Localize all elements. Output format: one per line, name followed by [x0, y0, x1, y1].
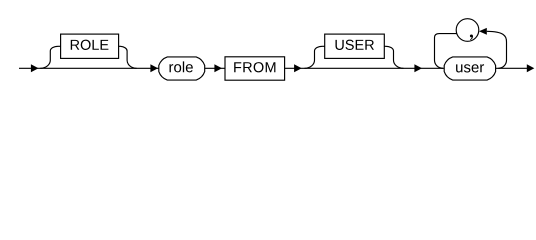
- arrow A4: [294, 64, 302, 72]
- arrow A1: [31, 64, 39, 72]
- arrow loop (points left): [479, 28, 487, 35]
- wire ROLE bypass left: [40, 46, 60, 68]
- wire USER bypass right: [384, 46, 403, 68]
- label FROM: [234, 62, 275, 72]
- arrow A6: [527, 64, 535, 72]
- oval user: [444, 57, 495, 80]
- arrow A2: [150, 64, 158, 72]
- arrow A5: [414, 64, 422, 72]
- circle comma: [456, 19, 479, 42]
- keyword box USER: [325, 34, 385, 58]
- wire repeat loop left leg: [435, 34, 458, 69]
- keyword box FROM: [225, 57, 285, 80]
- label comma: [470, 34, 473, 40]
- wire main line: [19, 67, 533, 69]
- wire repeat loop right leg: [487, 31, 507, 68]
- wire USER bypass left: [305, 46, 325, 68]
- keyword box ROLE: [61, 34, 119, 58]
- label role: [169, 61, 192, 72]
- label USER: [335, 40, 373, 50]
- label user: [456, 64, 484, 72]
- wire ROLE bypass right: [119, 46, 137, 68]
- oval role: [159, 57, 205, 80]
- label ROLE: [71, 40, 109, 50]
- arrow A3: [214, 64, 222, 72]
